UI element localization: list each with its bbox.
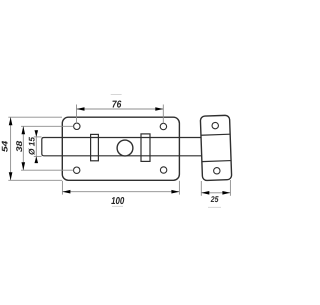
dimension 54 (left overall height) [8,117,62,180]
svg-text:76: 76 [112,100,122,111]
faint ghost lines near labels [111,95,221,208]
svg-text:100: 100 [111,196,125,207]
dimension 25 (bottom right) [201,180,230,196]
guide staple right [141,134,150,162]
svg-text:25: 25 [210,194,219,204]
keeper screw hole top [212,122,219,129]
keeper bridge lower edge [202,161,231,162]
svg-text:38: 38 [14,140,24,152]
dimension diameter 15 (bolt) [34,130,42,163]
keeper body [200,115,231,180]
svg-text:54: 54 [0,140,10,152]
keeper screw hole bottom [213,167,220,174]
screw hole top-right [160,123,166,129]
screw hole bottom-right [160,167,166,173]
main plate body P1 [62,117,179,180]
knob circle [117,140,133,156]
bolt rod (horizontal bar with protruding left end) [42,138,202,156]
dimension 76 (top) [77,105,164,124]
svg-text:Ø 15: Ø 15 [27,137,37,155]
guide staple left [91,134,99,160]
dimension 100 (bottom) [62,181,179,195]
keeper plate (rotated) [200,115,231,180]
keeper bridge upper edge [201,134,230,135]
screw hole top-left [74,123,80,129]
dimension 38 (hole spacing) [21,126,74,170]
screw hole bottom-left [74,167,80,173]
